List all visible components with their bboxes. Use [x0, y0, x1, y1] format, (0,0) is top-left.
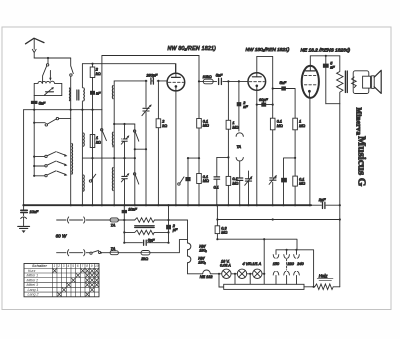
svg-text:10nF: 10nF — [30, 210, 39, 214]
switch band row3 — [34, 171, 67, 177]
wire y104.6 60pF — [257, 104, 273, 106]
antenna transformer right coil — [83, 88, 86, 101]
wire y124 link — [114, 123, 135, 125]
resistor column x217.4 — [216, 205, 218, 239]
wire y149 to tuning cap — [135, 148, 146, 150]
wire x23.6 to bus — [23, 110, 25, 205]
connector arcs row1 — [67, 217, 84, 223]
svg-text:0.08 A: 0.08 A — [220, 263, 231, 267]
main chassis bus — [24, 204, 312, 206]
svg-text:6: 6 — [77, 264, 79, 268]
switch column x134.8 — [134, 124, 136, 205]
coil L5 on x82.4 lower — [83, 175, 86, 191]
tuning gang cap column x146 — [145, 81, 147, 205]
wire y103.7 — [326, 103, 340, 105]
resistor 10k oval — [203, 79, 213, 84]
var cap x272.7 lower — [269, 175, 277, 185]
resistor 2k on x92.5 — [90, 64, 95, 91]
selector contacts 220 with link — [284, 250, 290, 284]
tube V2 NW180 detector — [248, 56, 266, 205]
svg-text:10: 10 — [95, 264, 99, 268]
svg-text:MΩ: MΩ — [232, 125, 238, 129]
svg-text:Minerva: Minerva — [355, 108, 363, 136]
coil L7 on x114 mid — [111, 132, 114, 147]
switch band row1 — [34, 152, 67, 158]
lamp chain drops to heater bar — [262, 273, 264, 275]
node cathode link column x188 — [187, 158, 189, 205]
switch on x92.5 lower — [89, 174, 96, 182]
svg-text:nF: nF — [96, 92, 101, 96]
x124.3 column — [123, 205, 125, 243]
arrow coupling into coil box — [49, 71, 51, 79]
wire y158 interlink — [82, 157, 134, 159]
tube V1 NW80 — [167, 64, 185, 206]
coil L8 on x114 lower — [111, 168, 114, 191]
resistor 0.1M lower x199 — [197, 174, 202, 184]
svg-text:Mittel 1: Mittel 1 — [27, 274, 39, 278]
svg-text:0.1: 0.1 — [214, 186, 219, 190]
node antenna junction — [47, 57, 49, 59]
svg-text:5µF: 5µF — [148, 238, 155, 242]
svg-text:NW 180₁/REN 1821): NW 180₁/REN 1821) — [246, 47, 290, 53]
resistor on x92.5 mid — [90, 135, 95, 148]
capacitor on x92.5 — [90, 91, 95, 95]
wire left coil down to bus — [70, 101, 72, 206]
rail A (top long rail) — [102, 55, 199, 57]
voltage selector rail — [276, 250, 314, 287]
antenna — [26, 38, 45, 58]
resistor 0.1M x272.7 — [270, 118, 275, 130]
svg-text:5nF: 5nF — [216, 74, 223, 78]
svg-text:280pF: 280pF — [146, 73, 158, 77]
svg-text:240: 240 — [296, 262, 304, 266]
ground chain x23.6 — [18, 205, 30, 233]
wire hop to lamps — [203, 270, 222, 274]
svg-text:Schalter: Schalter — [32, 264, 48, 268]
line3 — [217, 239, 297, 250]
svg-text:NE 18.2 /RENS 1823d): NE 18.2 /RENS 1823d) — [301, 47, 351, 53]
lamp La1 — [222, 269, 231, 278]
grid cap rail tube2 — [257, 56, 273, 205]
wire y109.7 left — [24, 109, 102, 111]
capacitor 5nF antenna — [31, 96, 38, 110]
svg-text:10kΩ: 10kΩ — [203, 75, 212, 79]
svg-text:180₁: 180₁ — [198, 261, 206, 265]
svg-text:NW 80₁/REN 1821): NW 80₁/REN 1821) — [168, 46, 217, 52]
var cap x248.5 — [245, 171, 253, 205]
wire y88.5 5nF — [273, 88, 295, 90]
svg-text:MΩ: MΩ — [232, 182, 238, 186]
band switch column x33.8 — [33, 110, 35, 176]
trimmer cap C t2 — [121, 173, 129, 182]
switch table — [24, 264, 99, 297]
selector contacts 240 — [294, 250, 300, 284]
table X marks — [53, 269, 99, 297]
column x295.1 — [294, 89, 296, 206]
svg-text:MΩ: MΩ — [299, 182, 305, 186]
svg-text:60pF: 60pF — [259, 98, 268, 102]
svg-text:60 W: 60 W — [56, 234, 67, 239]
svg-text:4 V/0.1/1 A: 4 V/0.1/1 A — [243, 262, 262, 266]
wire lamp3 up to line3 — [263, 239, 265, 274]
svg-text:5nF: 5nF — [39, 101, 46, 105]
svg-text:Mittel 2: Mittel 2 — [27, 278, 39, 282]
transformer core bars — [135, 226, 155, 228]
wire y157.9 + cap column x283.5 — [284, 158, 296, 178]
svg-text:µF: µF — [173, 228, 178, 232]
core — [77, 90, 79, 100]
TA pickup column x238.9 — [238, 81, 240, 131]
bus junction dots — [70, 204, 311, 206]
mains row2 — [57, 252, 90, 254]
speaker LS — [353, 70, 381, 93]
svg-text:MΩ: MΩ — [299, 124, 305, 128]
node railB R column — [91, 63, 93, 65]
resistor column x158.4 — [157, 81, 159, 205]
svg-text:180₁: 180₁ — [199, 248, 207, 252]
column x199 rail A right leg — [198, 56, 200, 206]
svg-text:Heiz: Heiz — [319, 273, 329, 278]
svg-text:7: 7 — [82, 264, 84, 268]
column x228.4 — [227, 81, 229, 205]
heater winding zigzag row1 — [135, 218, 188, 223]
svg-text:NE 182: NE 182 — [200, 275, 214, 279]
mains row1 — [57, 219, 111, 221]
svg-text:3: 3 — [63, 264, 65, 268]
switch on x101.9 — [101, 129, 107, 141]
transformer core — [345, 71, 347, 93]
transformer secondary — [352, 77, 357, 88]
svg-text:Mittel 3: Mittel 3 — [27, 283, 39, 287]
output tube cathode to bus — [309, 98, 311, 205]
svg-text:5: 5 — [72, 264, 74, 268]
wire right coil to rail B — [81, 64, 83, 88]
fuse F1 7A — [110, 218, 118, 222]
wire right coil down to bus — [81, 101, 83, 205]
svg-text:8: 8 — [86, 264, 88, 268]
svg-text:kΩ: kΩ — [96, 141, 101, 145]
switch mains — [90, 252, 92, 254]
svg-text:Lang 2: Lang 2 — [28, 293, 39, 297]
svg-text:kΩ: kΩ — [162, 124, 167, 128]
secondary zigzag row — [124, 230, 168, 234]
svg-text:7A: 7A — [111, 224, 116, 228]
switch S2 — [70, 58, 74, 88]
svg-text:2kΩ: 2kΩ — [140, 257, 148, 261]
wire x92.5 down to bus — [92, 95, 94, 205]
svg-text:4: 4 — [68, 264, 70, 268]
capacitor column x216.8 — [216, 157, 218, 205]
wire grid row y81.5 — [199, 80, 248, 82]
svg-text:5nF: 5nF — [280, 81, 287, 85]
rail A left leg — [101, 56, 103, 206]
wire antenna to switches — [34, 57, 70, 59]
capacitor on x188 — [185, 177, 190, 181]
svg-text:150: 150 — [273, 262, 280, 266]
svg-text:2µF: 2µF — [318, 198, 326, 202]
svg-text:1: 1 — [54, 264, 56, 268]
resistor 0.1M upper x199 — [197, 119, 202, 129]
heater dropper column — [188, 220, 203, 274]
svg-text:MΩ: MΩ — [203, 124, 209, 128]
capacitor 5nF grid — [217, 78, 223, 84]
resistor 2k oval row2 — [141, 251, 150, 255]
svg-text:nF: nF — [330, 66, 335, 70]
plate rail output — [310, 56, 340, 66]
switch band top — [34, 117, 70, 126]
tapped coil L2 on x70.7 — [71, 143, 74, 174]
long HT column x340 — [339, 104, 341, 287]
capacitor 2uF column x168.5 — [168, 205, 170, 243]
coil L6 on x114 — [113, 81, 115, 205]
coil L4 on x82.4 — [83, 133, 86, 146]
wire bar to Heiz resistor — [304, 286, 315, 288]
coil L1 box with variable core — [34, 81, 62, 95]
lamp La2 — [231, 273, 237, 275]
capacitor 280pF — [148, 78, 156, 84]
svg-text:nF: nF — [243, 105, 248, 109]
svg-text:MΩ: MΩ — [221, 231, 227, 235]
svg-text:TA: TA — [237, 145, 242, 149]
heater bus bar — [224, 284, 304, 289]
svg-text:Kurz: Kurz — [28, 269, 36, 273]
svg-text:2: 2 — [57, 264, 60, 268]
svg-text:Musicus G: Musicus G — [356, 136, 368, 187]
svg-text:10nF: 10nF — [128, 208, 137, 212]
capacitor 5nF output — [325, 56, 327, 104]
svg-text:7A: 7A — [111, 247, 116, 251]
selector contacts 150 — [273, 250, 279, 284]
rail B (grid lead tube1) — [82, 64, 175, 73]
switch near x182 — [178, 177, 184, 185]
wire y157.4 to cap column — [217, 156, 229, 158]
antenna transformer left coil — [68, 88, 71, 101]
svg-text:9: 9 — [91, 264, 93, 268]
svg-text:kΩ: kΩ — [96, 72, 101, 76]
svg-text:1: 1 — [96, 136, 98, 140]
resistor Heiz — [315, 284, 340, 290]
switch S1 antenna — [43, 58, 49, 83]
trimmer cap C t1 — [121, 124, 129, 205]
output transformer T1 primary — [337, 56, 343, 104]
fuse F2 7A — [110, 251, 118, 255]
wire 280pF row — [114, 80, 167, 82]
lamp La3 — [247, 273, 253, 275]
svg-text:220: 220 — [287, 262, 295, 266]
svg-text:MΩ: MΩ — [277, 124, 283, 128]
svg-text:Lang 1: Lang 1 — [28, 288, 39, 292]
svg-text:MΩ: MΩ — [203, 179, 209, 183]
line2 HT — [217, 219, 339, 221]
tube V3 output NE18.2 — [302, 66, 319, 98]
capacitor 2uF HT — [311, 204, 340, 206]
capacitor 5uF wire — [124, 242, 168, 244]
switch band row2 — [34, 161, 67, 167]
